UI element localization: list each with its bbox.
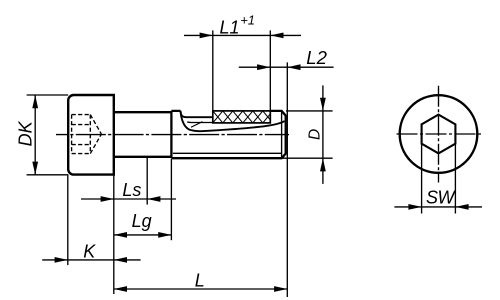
dimension DK (27, 95, 69, 175)
socket drill cone hidden lines (90, 115, 101, 154)
end view circle (400, 95, 478, 173)
dimension Lg (114, 159, 172, 240)
pocket recess silhouette curve (181, 112, 285, 132)
dimension Ls (81, 157, 176, 204)
knurled pad border (213, 111, 270, 123)
svg-text:DK: DK (15, 120, 35, 146)
svg-text:SW: SW (426, 188, 457, 208)
svg-text:Ls: Ls (122, 180, 141, 200)
dimension D (282, 85, 333, 183)
threaded body outline (171, 111, 285, 158)
svg-text:L1: L1 (220, 17, 240, 37)
pocket floor seat edge (181, 111, 213, 117)
centerline side view (56, 134, 289, 136)
pocket wall diagonal (191, 122, 203, 128)
dimension L (114, 288, 287, 290)
svg-text:D: D (306, 129, 323, 140)
svg-text:K: K (83, 241, 96, 261)
dimension L1 (184, 30, 301, 111)
end view hexagon (422, 115, 456, 154)
pocket near floor edge (187, 121, 213, 124)
svg-text:L: L (195, 270, 205, 290)
body step (170, 111, 172, 158)
knurl crosshatch (203, 111, 283, 123)
thread minor diameter line (173, 152, 282, 154)
shank outline (114, 112, 172, 157)
svg-text:L2: L2 (306, 47, 327, 68)
end view horizontal centerline (397, 133, 483, 135)
dimension L2 (239, 62, 334, 297)
dimension SW (394, 144, 482, 214)
end view vertical centerline (438, 86, 440, 183)
svg-text:+1: +1 (240, 13, 255, 28)
screw head (68, 95, 114, 175)
hex socket hidden lines (72, 115, 91, 154)
svg-text:Lg: Lg (132, 211, 152, 231)
thread end line (281, 112, 283, 158)
dimension K (42, 175, 140, 294)
